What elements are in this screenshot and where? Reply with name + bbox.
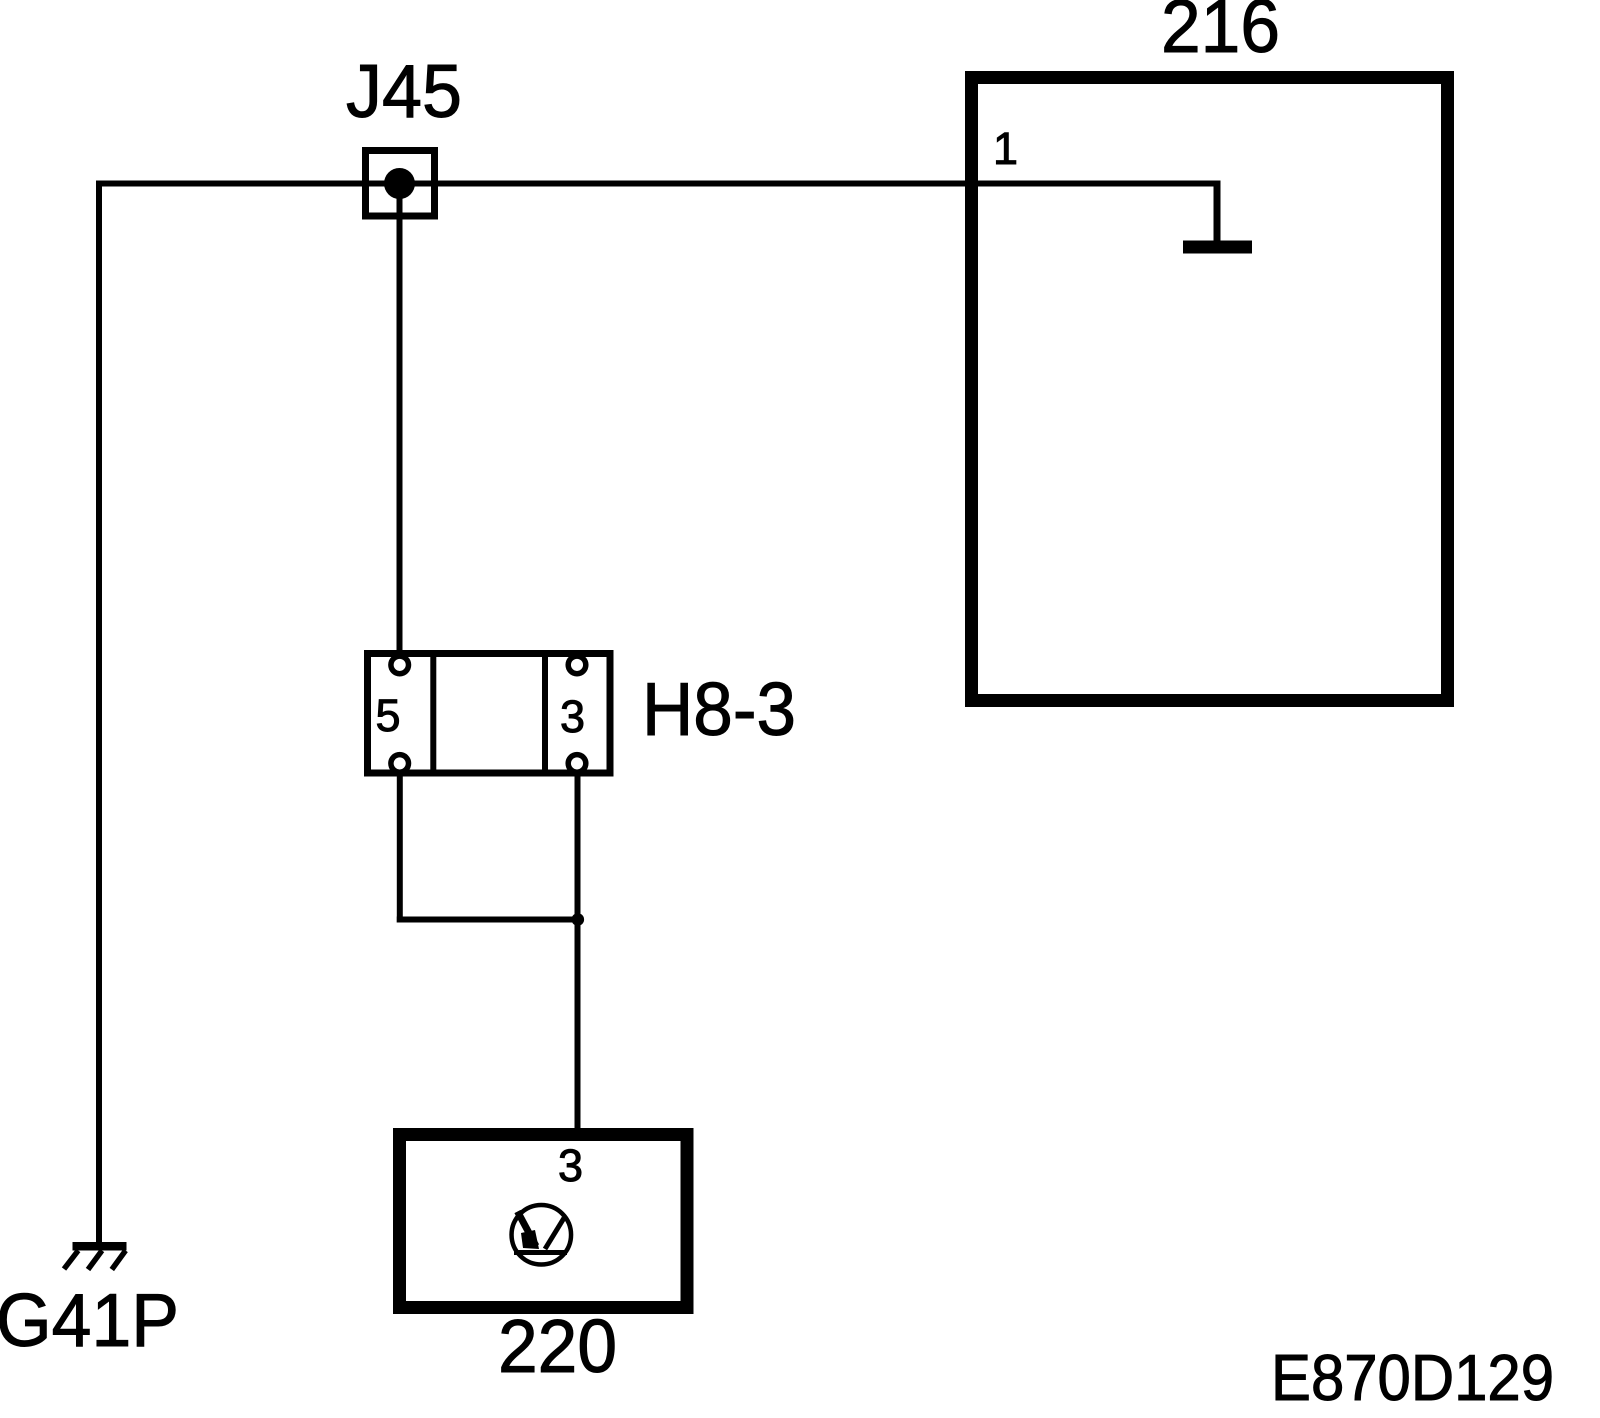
svg-text:1: 1 [993,123,1018,174]
wire: main horizontal from left riser through J45 to 216 pin 1 [96,181,1221,187]
svg-text:3: 3 [558,1140,583,1191]
svg-text:220: 220 [498,1304,617,1388]
wire: horizontal joining segment [397,917,578,923]
wire: H8-3 pin 5 down to joining segment [397,776,403,923]
junction J45 dot [384,168,415,199]
junction J45 box [366,151,435,217]
svg-text:G41P: G41P [0,1278,179,1362]
connector H8-3 body [368,654,611,774]
junction dot at joining of pin5 and pin3 wires [572,913,585,926]
H8-3 pin 5 terminal bottom circle [391,755,409,773]
H8-3 pin 5 terminal top circle [391,656,409,674]
ground G41P [64,1242,127,1270]
pump symbol inside 220 [512,1205,572,1265]
wire: 216 internal pin 1 lead down to ground bar [1214,184,1221,244]
svg-text:216: 216 [1161,0,1280,68]
pump box 220 [400,1135,688,1308]
svg-text:J45: J45 [346,49,462,133]
wire: J45 down to H8-3 pin 5 [397,184,403,655]
wire: left riser down to ground G41P [96,181,102,1244]
svg-text:3: 3 [560,691,585,742]
H8-3 pin 3 terminal top circle [568,656,586,674]
svg-text:H8-3: H8-3 [642,667,796,751]
ground bar inside 216 [1183,241,1252,254]
svg-text:E870D129: E870D129 [1271,1341,1554,1414]
H8-3 pin 3 terminal bottom circle [568,755,586,773]
svg-text:5: 5 [376,690,401,741]
wire: H8-3 pin 3 down through junction to 220 pin 3 [575,776,581,1131]
ECU box 216 [972,78,1448,701]
